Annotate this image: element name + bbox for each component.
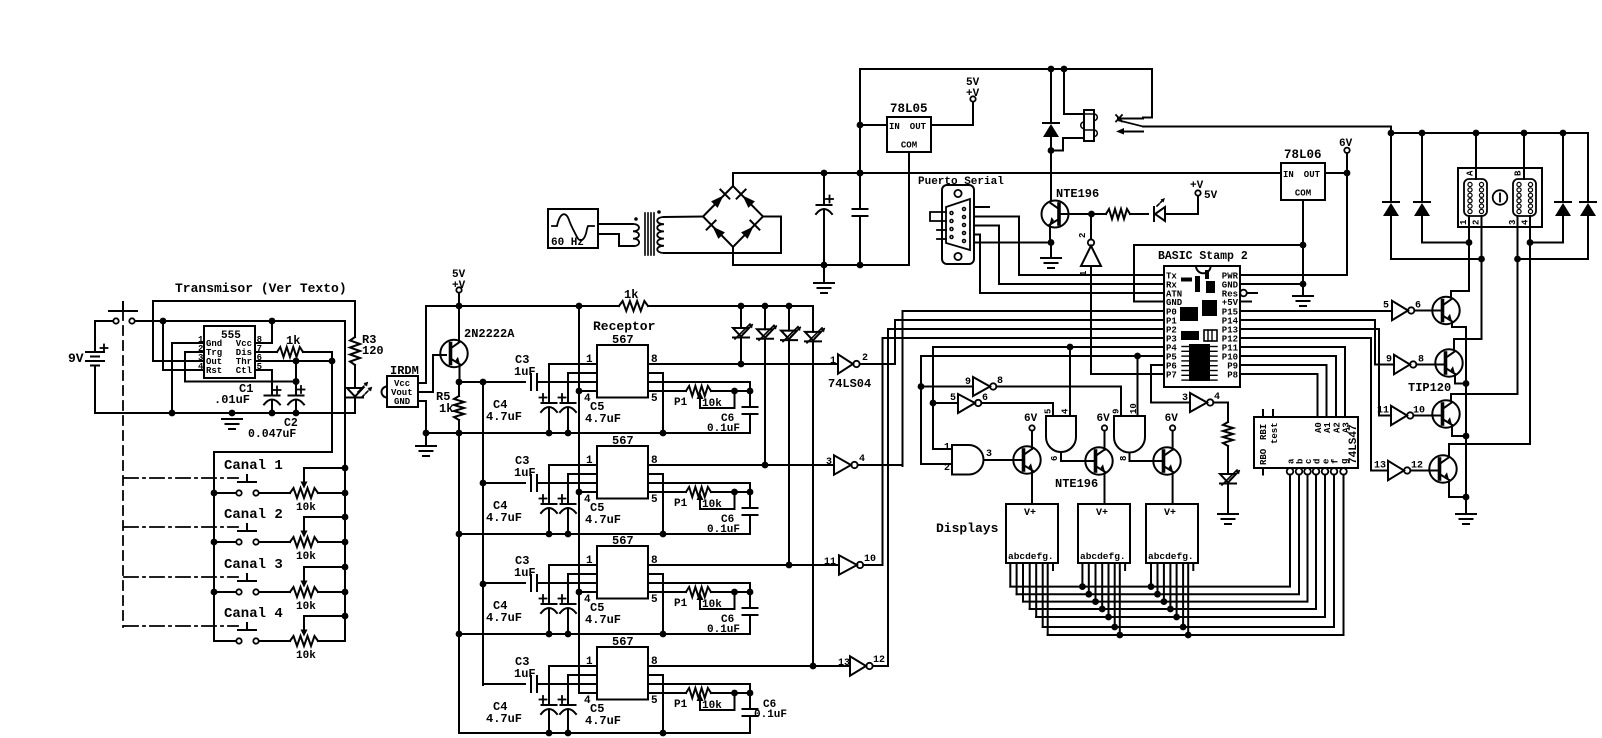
svg-text:9: 9: [965, 377, 971, 388]
wire P4 row: [933, 346, 1164, 348]
wire 5V rail of receiver: [426, 305, 619, 307]
svg-text:2N2222A: 2N2222A: [464, 327, 515, 341]
svg-text:P1: P1: [674, 699, 688, 711]
wire segment a display 2: [1081, 563, 1083, 587]
bridge rectifier BR1: [703, 186, 763, 247]
wire P3 row: [883, 337, 1165, 339]
resistor 1k discharge: [255, 351, 277, 353]
capacitor C6 0.1uF stage3: [749, 592, 751, 608]
wire 78L06 out: [1325, 172, 1347, 174]
svg-text:P1: P1: [674, 498, 688, 510]
wire segment b display 3: [1157, 563, 1159, 594]
svg-text:2: 2: [862, 353, 868, 364]
resistor 1k receiver rail: [619, 301, 648, 311]
svg-text:1k: 1k: [624, 288, 638, 302]
svg-text:Canal 1: Canal 1: [224, 458, 283, 474]
wire segment bus d: [1030, 475, 1316, 609]
relay K1 coil: [1064, 69, 1084, 114]
wire Q6 emitter: [1449, 480, 1466, 497]
wire input signal bus: [482, 382, 484, 685]
svg-text:Puerto Serial: Puerto Serial: [918, 176, 1004, 188]
inverter 74LS04 gate 3-4: [1190, 393, 1207, 412]
svg-text:P1: P1: [674, 598, 688, 610]
wire 567 pin4 Vcc stage4: [579, 692, 597, 694]
pin test stub: [1272, 410, 1274, 417]
pin RBI stub: [1262, 410, 1264, 417]
svg-text:V+: V+: [1024, 508, 1036, 519]
svg-text:4.7uF: 4.7uF: [585, 412, 621, 426]
capacitor C3 1uF stage3: [483, 582, 525, 584]
capacitor C2 0.047uF: [295, 361, 297, 396]
ground motor drivers: [1456, 513, 1476, 515]
wire inverter out8 to NAND-C in9: [996, 387, 1121, 417]
potentiometer 10k Canal 2: [259, 541, 290, 543]
wire 78L05 input riser: [859, 69, 861, 173]
wire 567 pin2 to C5 stage1: [568, 373, 597, 403]
svg-text:1k: 1k: [439, 402, 453, 416]
IC U2 567 tone decoder: [597, 345, 648, 398]
wire switch node to canal pots bus: [344, 321, 346, 641]
wire segment bus f: [1043, 475, 1334, 627]
wire bus out4 to P0: [902, 311, 904, 466]
svg-text:11: 11: [824, 557, 836, 568]
wire bus V2 P4 to NAND-A in1: [933, 347, 952, 449]
wire 567 pin8 output stage1: [648, 363, 838, 365]
dashed linkage line: [122, 311, 124, 627]
svg-text:2: 2: [1078, 233, 1088, 238]
inverter 74LS04 gate 1-2 vertical: [1088, 239, 1094, 245]
wire P5 row: [921, 355, 1164, 357]
svg-text:11: 11: [1377, 406, 1389, 417]
wire 5V bus to 567 pin4: [578, 306, 580, 693]
pin stub DB9 top: [974, 206, 989, 208]
svg-text:V+: V+: [1164, 508, 1176, 519]
wire 567 pin7 gnd stage1: [648, 373, 663, 433]
wire 555 pin6 Thr: [255, 360, 332, 362]
svg-text:1: 1: [944, 443, 950, 454]
svg-text:abcdefg.: abcdefg.: [1008, 551, 1054, 562]
svg-text:5: 5: [651, 594, 658, 606]
transformer core: [644, 213, 646, 255]
wire 567 pin8 output stage2: [648, 464, 834, 466]
wire inverter out 10 to stamp: [863, 564, 882, 566]
pin shell stub DB9: [930, 212, 946, 221]
wire 567 pin5 stage1: [648, 390, 686, 392]
wire inverter out6 to NAND-B in5: [981, 403, 1053, 416]
LED D8 status: [1153, 207, 1155, 221]
wire segment e display 1: [1035, 563, 1037, 617]
svg-text:V+: V+: [1096, 508, 1108, 519]
wire supply ground rail: [733, 264, 909, 266]
diode D12 flyback: [1587, 133, 1589, 202]
transistor T3 NTE196 display driver: [1153, 447, 1180, 474]
svg-text:abcdefg.: abcdefg.: [1148, 551, 1194, 562]
inverter 74LS04 gate 9-8: [921, 386, 973, 388]
wire IRDM GND: [418, 401, 426, 433]
svg-text:abcdefg.: abcdefg.: [1080, 551, 1126, 562]
wire NAND-B in4 from P4: [1069, 347, 1071, 416]
wire P10 to A2: [1240, 355, 1336, 357]
svg-text:g: g: [1340, 459, 1350, 464]
LED D4 indicator stage3: [788, 306, 790, 331]
diode D10 flyback: [1421, 133, 1423, 202]
IC U1 555 timer: [204, 326, 255, 378]
capacitor C4 4.7uF stage4: [542, 704, 557, 706]
wire 555 pin8 Vcc: [255, 321, 272, 343]
wire 567 pin5 stage3: [648, 591, 686, 593]
NAND gate B 5-4-6 pointing down: [1046, 416, 1076, 452]
resistor R3 120: [354, 301, 356, 337]
svg-text:COM: COM: [901, 141, 917, 151]
svg-text:567: 567: [612, 434, 634, 448]
svg-text:P1: P1: [674, 397, 688, 409]
capacitor C5 4.7uF stage2: [561, 503, 576, 505]
transistor Q3 TIP120: [1432, 297, 1459, 324]
wire segment f display 2: [1114, 563, 1116, 627]
svg-text:120: 120: [362, 344, 384, 358]
wire bridge - to ground rail: [732, 247, 734, 265]
wire bus V1 P5 to NAND-A in2: [921, 356, 952, 464]
terminal 6V display driver 2: [1102, 425, 1107, 430]
wire segment b display 1: [1016, 563, 1018, 594]
wire stamp GND right: [1240, 283, 1303, 285]
wire Q4 emitter: [1455, 374, 1466, 384]
pin dp stub display 3: [1192, 563, 1194, 570]
wire 555 pin5 Ctl: [255, 370, 272, 396]
svg-text:RBI: RBI: [1259, 424, 1269, 440]
wire 555 pin4 Rst: [163, 321, 204, 370]
diode D9 flyback: [1390, 133, 1392, 202]
transistor T1 NTE196 display driver: [1013, 446, 1040, 473]
wire bus out10 to P3: [882, 338, 884, 565]
switch S2 Canal 1: [238, 481, 256, 483]
wire 567 pin7 gnd stage4: [648, 675, 663, 733]
svg-text:5V: 5V: [1204, 190, 1218, 202]
transistor Q6 TIP120: [1429, 455, 1456, 482]
inverter 74LS04 gate 13-12: [1388, 461, 1404, 480]
wire P9 to A1: [1240, 364, 1327, 366]
capacitor C4 4.7uF stage3: [542, 603, 557, 605]
LED D1 infrared emitter: [347, 388, 363, 397]
switch S4 Canal 3: [238, 580, 256, 582]
potentiometer 10k Canal 3: [259, 591, 290, 593]
wire Q1 collector to 5V rail: [458, 306, 460, 342]
svg-text:10k: 10k: [702, 499, 722, 511]
wire 555 pin1 Gnd: [172, 343, 204, 413]
wire 567 pin6 stage3: [648, 583, 750, 592]
svg-text:0.047uF: 0.047uF: [248, 428, 296, 441]
svg-text:6: 6: [1050, 456, 1060, 461]
svg-text:567: 567: [612, 333, 634, 347]
motor M1 stepper: [1458, 168, 1542, 227]
wire segment e display 3: [1176, 563, 1178, 617]
ground receiver input: [425, 433, 427, 446]
resistor display LED: [1223, 422, 1233, 446]
wire inverter out4 to resistor: [1213, 403, 1228, 423]
svg-text:+V: +V: [1190, 180, 1204, 192]
resistor R5 1k: [458, 382, 460, 396]
wire segment bus g: [1048, 475, 1344, 635]
wire 567 pin6 stage4: [648, 684, 750, 693]
svg-text:+V: +V: [966, 88, 980, 100]
wire 567 pin5 stage2: [648, 491, 686, 493]
svg-text:4: 4: [1214, 392, 1220, 403]
svg-text:OUT: OUT: [910, 122, 927, 132]
wire segment c display 3: [1163, 563, 1165, 602]
ground transmitter: [222, 418, 242, 420]
pin dp stub display 1: [1052, 563, 1054, 570]
wire bus out2 to P1: [894, 320, 896, 364]
IC U6 74LS47 decoder: [1254, 417, 1358, 468]
svg-text:A3: A3: [1342, 422, 1352, 433]
wire P13 to inverter 11: [1240, 329, 1391, 416]
svg-text:9: 9: [1112, 409, 1122, 414]
inverter 74LS04 gate 13-12: [850, 656, 866, 675]
svg-text:4.7uF: 4.7uF: [486, 410, 522, 424]
wire 567 pin6 stage2: [648, 483, 750, 492]
svg-text:78L06: 78L06: [1284, 148, 1322, 162]
wire PWR to 6V: [1240, 173, 1347, 275]
svg-text:IN: IN: [1283, 170, 1294, 180]
wire inverter out to Q3 base: [1414, 310, 1441, 312]
potentiometer P1 10k stage3: [686, 587, 711, 597]
svg-text:BASIC Stamp 2: BASIC Stamp 2: [1158, 250, 1248, 263]
svg-text:4.7uF: 4.7uF: [585, 513, 621, 527]
ground supply: [823, 265, 825, 283]
svg-text:6V: 6V: [1165, 413, 1179, 425]
relay K1 switch: [1151, 69, 1153, 118]
wire P6 row to inverter 3: [1151, 365, 1190, 403]
terminal 6V: [1344, 148, 1349, 153]
battery B1 9V: [94, 321, 96, 352]
svg-text:2: 2: [944, 463, 950, 474]
capacitor C5 4.7uF stage1: [561, 402, 576, 404]
switch S3 Canal 2: [238, 530, 256, 532]
wire segment bus c: [1023, 475, 1308, 602]
wire motor supply rail: [1391, 132, 1588, 134]
svg-text:3: 3: [826, 457, 832, 468]
wire 567 pin7 gnd stage2: [648, 474, 663, 534]
svg-text:4.7uF: 4.7uF: [585, 714, 621, 728]
wire P2 row: [888, 328, 1164, 330]
wire relay to NTE196 collector: [1050, 151, 1052, 201]
wire 78L05 output to 5V terminal: [931, 102, 973, 126]
inverter 74LS04 gate 9-8: [1394, 355, 1410, 374]
wire 567 pin8 output stage4: [648, 665, 850, 667]
inverter 74LS04 gate 1-2: [838, 354, 853, 373]
wire P11 to A3: [1240, 346, 1345, 348]
module U5 BASIC Stamp 2: [1164, 266, 1240, 387]
wire 567 pin4 Vcc stage1: [579, 390, 597, 392]
svg-text:A1: A1: [1323, 422, 1333, 433]
wire inverter out 2 to stamp: [860, 363, 895, 365]
wire segment b display 2: [1088, 563, 1090, 594]
capacitor C4 4.7uF stage1: [542, 402, 557, 404]
wire motor pin1: [1451, 216, 1469, 297]
NAND gate A 74LS08 1-2-3: [952, 445, 984, 475]
capacitor C3 1uF stage1: [530, 374, 532, 390]
wire 567 pin4 Vcc stage2: [579, 491, 597, 493]
svg-text:1uF: 1uF: [514, 566, 536, 580]
wire segment c display 1: [1022, 563, 1024, 602]
IC U5 567 tone decoder: [597, 647, 648, 700]
svg-text:13: 13: [1374, 461, 1386, 472]
wire 78L05 COM to ground: [908, 152, 910, 265]
wire 567 pin1 to C4 stage2: [549, 465, 597, 504]
wire 567 pin2 to C5 stage3: [568, 574, 597, 604]
svg-text:10k: 10k: [296, 650, 316, 662]
wire 567 pin2 to C5 stage2: [568, 474, 597, 504]
wire DB9 to stamp Tx: [974, 217, 1164, 276]
svg-text:2: 2: [1472, 220, 1482, 225]
svg-text:5: 5: [1044, 409, 1054, 414]
wire ground rail stage4: [459, 732, 750, 734]
transistor T2 NTE196 display driver: [1085, 447, 1112, 474]
capacitor filter 2: [859, 173, 861, 209]
svg-text:8: 8: [997, 376, 1003, 387]
svg-text:4: 4: [859, 454, 865, 465]
svg-text:4.7uF: 4.7uF: [486, 712, 522, 726]
wire motor pin3: [1451, 216, 1518, 401]
svg-text:5: 5: [1383, 301, 1389, 312]
transformer T1 primary: [633, 224, 639, 246]
svg-text:OUT: OUT: [1304, 170, 1321, 180]
svg-text:10k: 10k: [702, 599, 722, 611]
transistor Q4 TIP120: [1435, 349, 1462, 376]
pin +5V stub: [1240, 301, 1251, 303]
svg-text:Canal 2: Canal 2: [224, 507, 283, 523]
wire inverter out 4 to stamp: [858, 464, 903, 466]
svg-text:10k: 10k: [296, 601, 316, 613]
wire segment d display 3: [1169, 563, 1171, 609]
capacitor C6 0.1uF stage1: [749, 391, 751, 407]
inverter 74LS04 gate 11-10: [839, 555, 857, 574]
svg-text:NTE196: NTE196: [1055, 477, 1098, 491]
capacitor C6 0.1uF stage2: [749, 492, 751, 508]
wire stamp GND left loop: [1134, 245, 1303, 302]
wire Q3 emitter: [1452, 322, 1466, 327]
terminal 5V receiver: [456, 287, 461, 292]
IC U3 567 tone decoder: [597, 446, 648, 499]
svg-text:567: 567: [612, 534, 634, 548]
wire AC to transformer: [598, 223, 633, 225]
display DSP3 7-segment: [1146, 504, 1198, 563]
wire NTE196 emitter to ground: [1049, 225, 1051, 243]
svg-text:GND: GND: [394, 397, 411, 407]
wire segment a display 3: [1150, 563, 1152, 587]
svg-text:f: f: [1331, 459, 1341, 464]
svg-text:4.7uF: 4.7uF: [585, 613, 621, 627]
svg-text:8: 8: [1119, 456, 1129, 461]
wire DB9 to stamp Rx: [974, 226, 1164, 285]
wire segment f display 3: [1182, 563, 1184, 627]
svg-text:+V: +V: [452, 280, 466, 292]
svg-text:6V: 6V: [1339, 138, 1353, 150]
wire relay switch to motor rail: [1143, 127, 1391, 134]
wire motor coil A tap: [1475, 133, 1477, 179]
wire Dis-Thr node to canal switches: [214, 352, 332, 641]
wire secondary bottom to bridge: [664, 217, 781, 254]
wire P1 row: [895, 319, 1164, 321]
wire 567 pin5 stage4: [648, 692, 686, 694]
wire NAND-C out to T3 base: [1130, 453, 1163, 462]
wire P15 to inverter 5: [1240, 310, 1392, 312]
wire segment f display 1: [1042, 563, 1044, 627]
regulator U7 78L05: [887, 117, 931, 152]
wire 567 pin1 to C4 stage1: [549, 364, 597, 403]
pin dp stub display 2: [1124, 563, 1126, 570]
display DSP1 7-segment: [1006, 504, 1058, 563]
wire segment bus e: [1036, 475, 1325, 617]
svg-text:Displays: Displays: [936, 521, 999, 536]
wire segment g display 2: [1119, 563, 1121, 635]
wire inverter out 12 to stamp: [873, 665, 888, 667]
wire 78L06 COM: [1302, 200, 1304, 296]
linkage dash-dot Canal 2: [124, 526, 238, 528]
wire P7 row to inverter 1: [1091, 266, 1164, 374]
wire P0 row: [903, 310, 1165, 312]
svg-text:IRDM: IRDM: [390, 364, 419, 378]
wire P14 to inverter 9: [1240, 320, 1394, 365]
wire 567 pin1 to C4 stage4: [549, 666, 597, 705]
switch S5 Canal 4: [238, 629, 256, 631]
svg-text:Canal 4: Canal 4: [224, 606, 283, 622]
linkage dash-dot Canal 3: [124, 576, 238, 578]
capacitor C4 4.7uF stage2: [542, 503, 557, 505]
svg-text:Receptor: Receptor: [593, 319, 655, 334]
display DSP2 7-segment: [1078, 504, 1130, 563]
svg-text:1uF: 1uF: [514, 667, 536, 681]
wire segment a display 1: [1009, 563, 1011, 587]
wire 567 pin4 Vcc stage3: [579, 591, 597, 593]
LED D3 indicator stage2: [764, 306, 766, 329]
wire Q1 emitter node: [459, 365, 461, 383]
svg-text:10: 10: [1129, 403, 1139, 414]
wire NAND-C in10 from P5: [1137, 356, 1139, 416]
LED D5 indicator stage4: [812, 306, 814, 332]
potentiometer P1 10k stage4: [686, 688, 711, 698]
wire segment d display 2: [1101, 563, 1103, 609]
ground 78L06: [1293, 295, 1313, 297]
wire Q1 emitter to C3 stage1: [459, 381, 525, 383]
LED D6 display indicator: [1220, 474, 1236, 483]
wire transmitter ground rail: [95, 412, 355, 414]
wire segment d display 1: [1029, 563, 1031, 609]
svg-text:12: 12: [873, 655, 885, 666]
svg-text:P8: P8: [1227, 371, 1238, 381]
svg-text:4: 4: [1061, 408, 1071, 414]
wire ground rail stage1: [426, 432, 750, 434]
wire emitter ground bus: [1465, 327, 1467, 514]
stamp internal components: [1205, 270, 1209, 279]
wire bus out12 to P2: [887, 329, 889, 666]
wire 567 pin1 to C4 stage3: [549, 565, 597, 604]
svg-text:Transmisor (Ver Texto): Transmisor (Ver Texto): [175, 281, 347, 296]
pin RBO stub: [1262, 468, 1264, 475]
wire 555 pin3 Out: [153, 301, 355, 361]
wire inverter out to Q4 base: [1416, 364, 1444, 366]
pin Res bubble: [1240, 290, 1247, 297]
linkage dash-dot Canal 4: [124, 625, 238, 627]
NAND gate C 9-10-8 pointing down: [1114, 416, 1145, 453]
wire ground bus linking stage rails: [458, 433, 460, 733]
svg-text:0.1uF: 0.1uF: [754, 709, 787, 721]
wire segment bus b: [1017, 475, 1299, 595]
svg-text:5: 5: [651, 393, 658, 405]
capacitor C1 .01uF: [265, 395, 280, 397]
svg-text:GND: GND: [1166, 298, 1183, 308]
wire P12 to inverter 13: [1240, 338, 1388, 471]
